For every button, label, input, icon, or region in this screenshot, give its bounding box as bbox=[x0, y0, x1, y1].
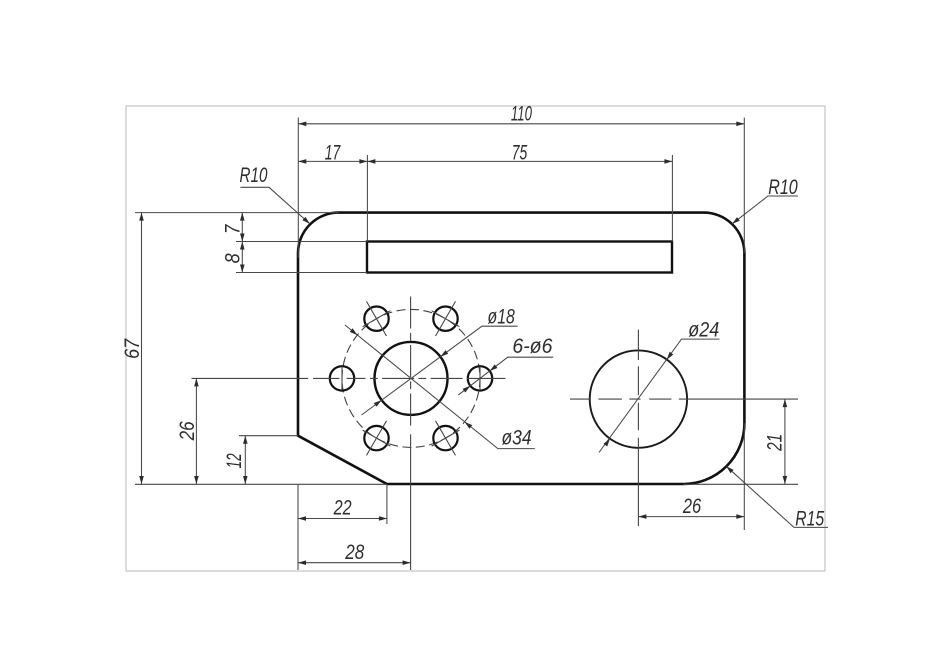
svg-text:67: 67 bbox=[121, 338, 144, 359]
dim 7 / 8 bbox=[241, 213, 243, 273]
radial line hole 300deg bbox=[436, 421, 456, 456]
extension line slot right edge bbox=[671, 155, 673, 242]
hole at 180deg bbox=[330, 366, 354, 390]
arrows dim 28 bbox=[298, 560, 306, 565]
arrow R10 left bbox=[302, 217, 311, 226]
vertical centerline bolt pattern bbox=[410, 297, 412, 431]
extension line plate left edge top bbox=[297, 118, 299, 259]
svg-text:R15: R15 bbox=[795, 507, 824, 530]
svg-text:21: 21 bbox=[764, 434, 787, 452]
horizontal centerline bolt pattern bbox=[192, 377, 506, 379]
arrows dim 8 bbox=[240, 242, 245, 250]
leader R15 bbox=[726, 466, 828, 527]
svg-text:75: 75 bbox=[512, 141, 528, 164]
leader D18 bbox=[362, 326, 518, 415]
hole at 0deg bbox=[468, 366, 492, 390]
circle D24 bbox=[590, 350, 687, 447]
extension line plate bottom edge right bbox=[683, 483, 798, 485]
leader 6-D6 bbox=[458, 357, 553, 395]
arrows dim 26 right bbox=[638, 514, 646, 519]
dimension line 110 bbox=[298, 123, 744, 125]
arrows D18 bbox=[439, 350, 448, 358]
arrows dim 7 bbox=[240, 213, 245, 221]
arrows dim 21 bbox=[783, 399, 788, 407]
leader R10 right bbox=[732, 196, 798, 224]
extension line slot top bbox=[236, 241, 367, 243]
arrows 6-D6 bbox=[488, 364, 497, 373]
arrows dim 75 bbox=[367, 159, 375, 164]
dim 28 bbox=[298, 562, 411, 564]
dim 12 bbox=[244, 436, 246, 484]
arrows dim 12 bbox=[243, 436, 248, 444]
svg-text:ø18: ø18 bbox=[488, 306, 516, 329]
leader D34 bbox=[345, 325, 535, 449]
dim 67 bbox=[141, 213, 143, 484]
extension line plate right edge bottom bbox=[743, 423, 745, 530]
arrows dim 67 bbox=[139, 213, 144, 221]
extension line plate left edge bottom bbox=[297, 484, 299, 570]
arrows dim 17 bbox=[298, 159, 306, 164]
svg-text:12: 12 bbox=[223, 453, 246, 468]
svg-text:ø24: ø24 bbox=[688, 319, 719, 342]
hole at 300deg bbox=[433, 426, 457, 450]
hole at 240deg bbox=[364, 426, 388, 450]
arrows D34 bbox=[350, 328, 359, 337]
arrow R10 right bbox=[731, 217, 740, 226]
extension line plate top edge left bbox=[135, 212, 339, 214]
radial line hole 60deg bbox=[436, 301, 456, 336]
extension line plate right edge top bbox=[743, 118, 745, 253]
extension line slot left edge bbox=[366, 155, 368, 242]
svg-text:6-ø6: 6-ø6 bbox=[512, 335, 552, 358]
radial line hole 240deg bbox=[367, 421, 387, 456]
tangential line hole 60deg bbox=[432, 311, 460, 327]
svg-text:17: 17 bbox=[325, 141, 341, 164]
dim 26 left bbox=[195, 378, 197, 484]
dim 21 bbox=[784, 399, 786, 484]
extension line chamfer top bbox=[239, 435, 298, 437]
hole at 60deg bbox=[433, 307, 457, 331]
D24 vertical centerline bbox=[637, 330, 639, 526]
dim 22 bbox=[298, 518, 387, 520]
plate outline bbox=[298, 213, 744, 484]
tangential line hole 240deg bbox=[363, 430, 391, 446]
arrow R15 bbox=[725, 464, 734, 473]
dim 26 right bbox=[638, 516, 744, 518]
bolt circle D34 dashed bbox=[342, 309, 480, 447]
D24 horizontal centerline bbox=[570, 398, 798, 400]
tangential line hole 300deg bbox=[432, 430, 460, 446]
slot bbox=[367, 242, 672, 273]
leader R10 left bbox=[240, 187, 310, 224]
svg-text:ø34: ø34 bbox=[502, 427, 532, 450]
dim 17 / 75 bbox=[298, 160, 672, 162]
tangential line hole 0deg bbox=[479, 366, 481, 390]
svg-text:R10: R10 bbox=[240, 164, 268, 187]
tangential line hole 120deg bbox=[363, 311, 391, 327]
svg-text:26: 26 bbox=[176, 421, 199, 441]
border frame bbox=[126, 106, 825, 571]
arrows D24 bbox=[665, 352, 673, 361]
svg-text:8: 8 bbox=[221, 253, 244, 263]
extension line slot bottom bbox=[236, 272, 367, 274]
center hole D18 bbox=[375, 342, 448, 415]
extension line chamfer corner bbox=[386, 484, 388, 524]
svg-text:7: 7 bbox=[221, 224, 244, 234]
leader D24 bbox=[599, 339, 719, 452]
svg-text:22: 22 bbox=[333, 497, 352, 520]
arrows dim 22 bbox=[298, 516, 306, 521]
arrows dim 26 left bbox=[194, 378, 199, 386]
hole at 120deg bbox=[364, 307, 388, 331]
tangential line hole 180deg bbox=[341, 366, 343, 390]
svg-text:110: 110 bbox=[511, 102, 532, 125]
arrows dim 110 bbox=[298, 122, 306, 127]
svg-text:26: 26 bbox=[682, 495, 701, 518]
radial line hole 120deg bbox=[367, 301, 387, 336]
svg-text:R10: R10 bbox=[768, 176, 798, 199]
extension line plate bottom edge left bbox=[135, 483, 387, 485]
svg-text:28: 28 bbox=[344, 541, 364, 564]
